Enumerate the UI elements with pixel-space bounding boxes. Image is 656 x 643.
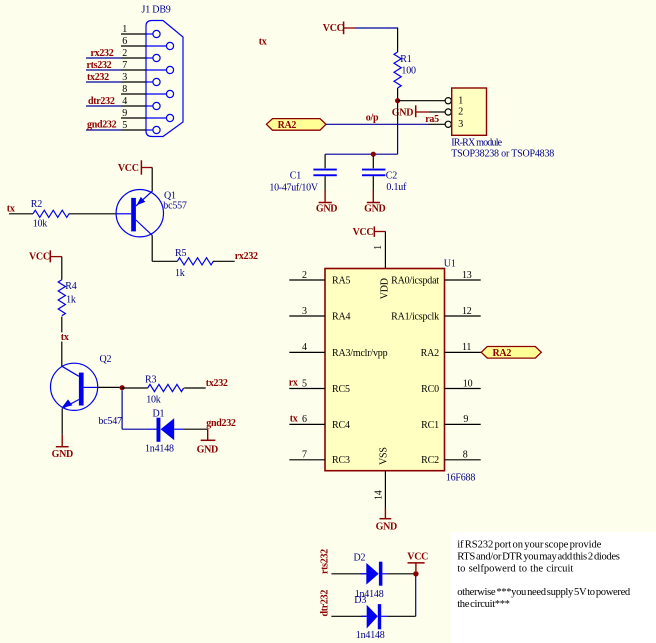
svg-text:TSOP38238 or TSOP4838: TSOP38238 or TSOP4838 [451, 148, 554, 159]
svg-text:100: 100 [401, 65, 416, 76]
svg-text:tx232: tx232 [206, 378, 228, 389]
svg-text:1: 1 [122, 24, 127, 35]
resistor R5 [175, 248, 213, 279]
U1 pin 9 RC1 [421, 414, 481, 431]
wire collector to R5 [152, 260, 177, 262]
svg-text:GND: GND [364, 203, 385, 214]
wire net tx232 [86, 81, 121, 83]
svg-text:R4: R4 [65, 281, 76, 292]
svg-text:GND: GND [392, 107, 413, 118]
wire D2 cathode to VCC node [388, 573, 414, 575]
wire R2 to Q1 base [69, 213, 117, 215]
U1 pin 8 RC2 [421, 450, 481, 467]
svg-text:2: 2 [302, 270, 307, 281]
svg-text:dtr232: dtr232 [88, 96, 115, 107]
wire rts232 to D2 [331, 573, 366, 575]
svg-text:VCC: VCC [118, 163, 139, 174]
svg-text:R5: R5 [175, 248, 186, 259]
svg-text:RC1: RC1 [421, 420, 439, 431]
svg-text:RA2: RA2 [493, 348, 512, 359]
wire module pin 3 stub [429, 123, 445, 125]
svg-text:C1: C1 [290, 171, 301, 182]
svg-text:rts232: rts232 [320, 549, 331, 574]
power VCC (diodes) [407, 551, 428, 571]
wire VCC to R4 [61, 257, 63, 280]
wire Q2 base to junction [98, 386, 120, 388]
svg-text:9: 9 [463, 414, 468, 425]
svg-text:RA4: RA4 [332, 311, 350, 322]
U1 pin 4 RA3/mclr/vpp [289, 342, 387, 359]
svg-text:ra5: ra5 [425, 114, 439, 125]
wire to D1 cathode [122, 428, 148, 430]
svg-text:RC3: RC3 [332, 455, 350, 466]
capacitor C2 [362, 169, 407, 193]
svg-text:RA0/icspdat: RA0/icspdat [391, 275, 439, 286]
svg-text:VCC: VCC [29, 251, 50, 262]
svg-text:GND: GND [197, 445, 218, 456]
svg-text:D3: D3 [354, 595, 366, 606]
svg-text:1n4148: 1n4148 [356, 630, 385, 641]
svg-text:RTS and/or DTR you may add thi: RTS and/or DTR you may add this 2 diodes [457, 552, 620, 563]
power GND (Q2) [52, 435, 73, 460]
svg-text:R2: R2 [31, 199, 42, 210]
svg-text:2: 2 [122, 48, 127, 59]
svg-text:otherwise ***you need supply 5: otherwise ***you need supply 5V to power… [457, 587, 631, 598]
module pin 2 circle [445, 109, 451, 115]
power GND (C2) [364, 190, 385, 214]
svg-text:VCC: VCC [323, 23, 344, 34]
power VCC (R1) [323, 22, 355, 35]
U1 pin 11 RA2 [421, 342, 481, 359]
svg-text:10: 10 [463, 378, 473, 389]
wire R5 to rx232 [213, 260, 235, 262]
svg-text:12: 12 [462, 306, 472, 317]
svg-text:RA3/mclr/vpp: RA3/mclr/vpp [332, 348, 388, 359]
wire C2 bottom pin [372, 176, 374, 190]
U1 pin 5 RC5 + net label rx [289, 377, 350, 395]
U1 pin 2 RA5 [289, 270, 350, 287]
svg-text:gnd232: gnd232 [206, 418, 236, 429]
power GND (U1 pin 14) [376, 509, 397, 533]
svg-text:Q2: Q2 [100, 354, 112, 365]
power VCC (Q1) [118, 160, 152, 174]
svg-text:VCC: VCC [407, 551, 428, 562]
svg-text:bc547: bc547 [98, 416, 122, 427]
svg-text:4: 4 [122, 96, 127, 107]
svg-text:8: 8 [463, 450, 468, 461]
wire RA2 to module pin 3 [326, 123, 429, 125]
wire VCC to R1 [355, 27, 398, 29]
svg-text:IR-RX module: IR-RX module [451, 138, 502, 149]
wire R3 to tx232 [184, 387, 206, 389]
J1 pin 1 [121, 24, 160, 38]
svg-text:3: 3 [458, 119, 463, 130]
svg-text:o/p: o/p [366, 112, 379, 123]
svg-text:gnd232: gnd232 [87, 120, 117, 131]
svg-text:10k: 10k [146, 394, 161, 405]
svg-text:VCC: VCC [353, 227, 374, 238]
wire net rts232 [86, 69, 121, 71]
wire U1 pin 1 [384, 232, 386, 269]
svg-text:GND: GND [52, 449, 73, 460]
wire Q1 collector down [151, 235, 153, 261]
svg-text:RA2: RA2 [278, 120, 297, 131]
svg-text:RC4: RC4 [332, 420, 350, 431]
power VCC (R4) [29, 250, 62, 262]
svg-text:2: 2 [458, 107, 463, 118]
capacitor C1 [269, 169, 336, 194]
wire C2 top pin [372, 156, 374, 168]
svg-text:8: 8 [122, 84, 127, 95]
J1 pin 2 [121, 48, 160, 62]
svg-text:1k: 1k [66, 294, 76, 305]
wire Q2 emitter down [61, 408, 63, 434]
resistor R2 [31, 199, 69, 230]
diode D3 1n4148 [354, 595, 388, 641]
svg-text:16F688: 16F688 [446, 472, 476, 483]
svg-text:D1: D1 [153, 408, 165, 419]
svg-text:11: 11 [462, 342, 471, 353]
port RA2 (left) [266, 119, 326, 131]
svg-text:dtr232: dtr232 [320, 590, 331, 617]
wire to module pin 2 [429, 111, 445, 113]
svg-text:14: 14 [374, 490, 385, 500]
wire D1 anode to gnd232 [183, 428, 208, 430]
svg-text:6: 6 [122, 36, 127, 47]
svg-text:RA1/icspclk: RA1/icspclk [391, 311, 439, 322]
text frame (white) [451, 532, 656, 643]
resistor R1 [394, 52, 416, 88]
svg-text:rx: rx [289, 377, 298, 388]
svg-text:7: 7 [302, 450, 307, 461]
svg-text:5: 5 [302, 378, 307, 389]
J1 pin 4 [121, 96, 160, 110]
J1 pin 8 [121, 84, 174, 98]
wire U1 pin 14 [384, 471, 386, 509]
svg-text:3: 3 [122, 72, 127, 83]
IC U1 16F688 body [325, 269, 445, 471]
svg-text:GND: GND [376, 521, 397, 532]
module pin 1 circle [445, 98, 451, 104]
svg-text:tx: tx [259, 36, 267, 47]
wire caps horizontal [325, 153, 398, 155]
wire net dtr232 [86, 105, 121, 107]
svg-text:VDD: VDD [380, 278, 391, 299]
svg-text:1: 1 [458, 95, 463, 106]
port RA2 (right) [481, 347, 541, 359]
svg-text:3: 3 [302, 306, 307, 317]
power GND (C1) [316, 190, 337, 214]
wire net rx232 [86, 57, 121, 59]
svg-text:tx: tx [61, 332, 69, 343]
J1 pin 3 [121, 72, 160, 86]
diode D1 1n4148 [145, 408, 183, 454]
U1 pin 13 RA0/icspdat [391, 270, 481, 287]
wire tx to R2 [9, 213, 33, 215]
svg-text:R3: R3 [145, 375, 156, 386]
connector J1 body [146, 21, 183, 137]
transistor Q1 bc557 [116, 190, 187, 237]
net label tx (on wire) [59, 332, 72, 343]
wire D3 cathode [388, 615, 416, 617]
diode D2 1n4148 [354, 553, 389, 601]
svg-text:rts232: rts232 [87, 60, 112, 71]
svg-text:VSS: VSS [378, 447, 389, 465]
svg-text:tx232: tx232 [87, 72, 109, 83]
junction node C2 [371, 152, 376, 157]
svg-text:to selfpowerd to the circuit: to selfpowerd to the circuit [457, 564, 573, 575]
wire VCC to Q1 emitter [151, 168, 153, 192]
svg-text:RA2: RA2 [421, 348, 439, 359]
svg-text:bc557: bc557 [163, 201, 187, 212]
U1 pin 6 RC4 + net label tx [289, 413, 350, 431]
wire R1 bottom pin [397, 88, 399, 101]
J1 pin 9 [121, 108, 174, 122]
wire net gnd232 [86, 129, 121, 131]
wire R4 to Q2 collector [61, 317, 63, 367]
power GND (module pin 2) [392, 105, 429, 118]
module pin 3 circle [445, 121, 451, 127]
svg-text:D2: D2 [354, 553, 366, 564]
IR-RX module body [452, 88, 487, 135]
U1 pin 3 RA4 [289, 306, 350, 323]
svg-text:7: 7 [122, 60, 127, 71]
svg-text:RA5: RA5 [332, 275, 350, 286]
wire VCC node down to D3 [415, 576, 417, 616]
svg-text:5: 5 [122, 120, 127, 131]
svg-text:rx232: rx232 [91, 48, 114, 59]
U1 pin 7 RC3 [289, 450, 350, 467]
wire junction to R3 [122, 387, 148, 389]
J1 pin 6 [121, 36, 174, 50]
junction node Q2/R3/D1 [120, 385, 125, 390]
wire dtr232 to D3 [331, 615, 366, 617]
junction node VCC diodes [413, 571, 418, 576]
wire junction down (upper, black) [397, 103, 399, 121]
svg-text:RC5: RC5 [332, 384, 350, 395]
wire R1 top pin [397, 28, 399, 52]
svg-text:10k: 10k [33, 219, 48, 230]
svg-text:R1: R1 [400, 54, 411, 65]
svg-text:the circuit***: the circuit*** [457, 599, 509, 610]
junction node R1/pin1 [395, 98, 400, 103]
power GND (D1) [197, 429, 218, 456]
svg-text:1k: 1k [175, 268, 185, 279]
svg-text:10-47uf/10V: 10-47uf/10V [269, 183, 318, 194]
svg-text:tx: tx [290, 413, 298, 424]
U1 pin 10 RC0 [421, 378, 481, 395]
svg-text:9: 9 [122, 108, 127, 119]
svg-text:GND: GND [316, 203, 337, 214]
transistor Q2 bc547 [51, 354, 123, 427]
svg-text:13: 13 [462, 270, 472, 281]
wire junction down to D1 [121, 390, 123, 429]
svg-text:C2: C2 [386, 171, 397, 182]
U1 pin 12 RA1/icspclk [391, 306, 481, 323]
resistor R3 [145, 375, 184, 406]
svg-text:1: 1 [373, 245, 384, 250]
J1 pin 7 [121, 60, 174, 74]
wire C1 bottom pin [324, 176, 326, 190]
svg-text:if RS232 port on your scope pr: if RS232 port on your scope provide [457, 540, 601, 551]
svg-text:rx232: rx232 [235, 251, 258, 262]
resistor R4 [58, 280, 77, 316]
svg-text:0.1uf: 0.1uf [386, 182, 407, 193]
svg-text:4: 4 [302, 342, 307, 353]
power VCC (U1 pin 1) [353, 226, 386, 238]
svg-text:tx: tx [7, 203, 15, 214]
J1 pin 5 [121, 120, 160, 134]
wire C1 top pin [324, 154, 326, 168]
svg-text:1n4148: 1n4148 [145, 444, 174, 455]
svg-text:6: 6 [302, 414, 307, 425]
svg-text:J1 DB9: J1 DB9 [142, 5, 171, 16]
svg-text:RC2: RC2 [421, 455, 439, 466]
wire to module pin 1 [398, 100, 445, 102]
note text block [457, 540, 631, 610]
svg-text:RC0: RC0 [421, 384, 439, 395]
svg-text:U1: U1 [444, 259, 456, 270]
wire junction down to caps [397, 121, 399, 154]
